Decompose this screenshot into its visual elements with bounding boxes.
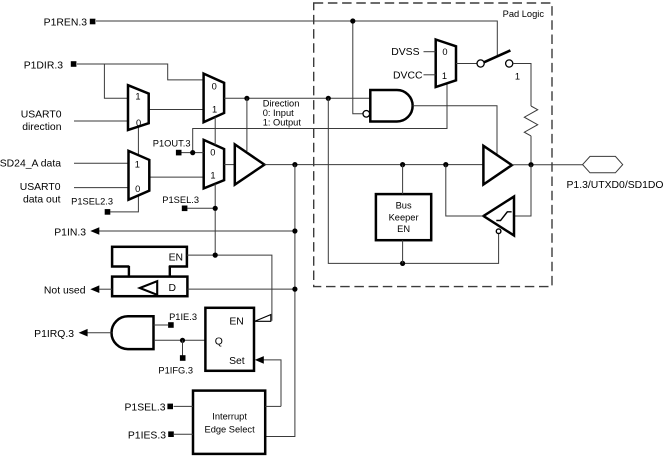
svg-text:1: 1 [135,92,140,102]
switch right contact [506,60,513,67]
wire direction branch down to bus keeper line [328,98,402,263]
wire edge select top output [265,405,281,407]
clock triangle in D box [140,281,157,295]
svg-text:Edge Select: Edge Select [205,424,256,434]
svg-text:P1OUT.3: P1OUT.3 [153,138,191,148]
svg-text:P1.3/UTXD0/SD1DO: P1.3/UTXD0/SD1DO [567,180,663,191]
wire P1OUT branch up to pull mux select [193,83,447,152]
svg-text:EN: EN [397,224,410,234]
svg-text:Interrupt: Interrupt [212,412,247,422]
wire bus keeper bottom [402,240,404,263]
svg-text:0: 0 [442,47,447,57]
arrow Set [255,356,264,364]
wire mux1 output to mux2 input 1 [149,109,204,111]
svg-text:USART0: USART0 [21,110,62,121]
node schmitt output junction [443,162,448,167]
wire P1IE.3 stub [154,324,169,326]
svg-text:1: 1 [442,71,447,81]
driver U12 (pad output buffer) [483,146,512,185]
wire P1DIR branch to mux1 input 1 [104,64,128,98]
node pad junction [528,162,533,167]
AND gate U6 (interrupt, mirrored) [111,316,153,349]
svg-text:SD24_A data: SD24_A data [0,158,61,169]
node direction branch down [326,96,331,101]
svg-text:1: 1 [210,171,215,181]
svg-text:DVCC: DVCC [393,70,423,81]
svg-text:0: 0 [136,118,141,128]
node P1SEL.3 junction [213,206,218,211]
svg-text:P1SEL.3: P1SEL.3 [162,195,199,205]
node bus keeper top junction [400,162,405,167]
wire EN line from latch [187,255,272,321]
svg-text:0: 0 [210,147,215,157]
pad hexagon P1.3 [583,156,623,172]
svg-text:P1SEL.3: P1SEL.3 [124,403,165,414]
wire pad down to schmitt input [514,165,531,216]
svg-text:Not used: Not used [44,286,86,297]
mux U3 (direction source mux) [204,74,225,123]
wire driver output to pad [512,164,583,166]
svg-text:Bus: Bus [396,200,412,210]
bus keeper box U11 [376,194,431,240]
arrow P1IN [90,227,99,235]
pad logic dashed border [314,3,552,287]
hysteresis symbol [496,212,511,221]
svg-text:1: Output: 1: Output [263,117,302,127]
latch input register box EN [112,247,187,267]
svg-text:0: Input: 0: Input [263,108,294,118]
svg-text:USART0: USART0 [20,182,61,193]
node bus keeper bottom junction [400,261,405,266]
svg-text:DVSS: DVSS [391,47,419,58]
wire P1SEL.3 upper [187,207,215,209]
wire Direction line mux3 out to NAND [224,97,370,99]
wire buffer enable vertical [246,98,248,151]
node direction branch to buffer enable [244,96,249,101]
node P1IN junction [292,228,297,233]
wire mux4 output to buffer [224,164,235,166]
svg-text:Set: Set [229,356,245,367]
bubble on NAND lower input [363,111,370,118]
wire main vertical to edge select [265,165,295,437]
mux U10 DVSS/DVCC [436,40,456,88]
resistor R1 [524,106,537,136]
wire P1SEL.3 lower [174,405,193,407]
node EN line junction [213,253,218,258]
svg-text:P1IRQ.3: P1IRQ.3 [34,329,74,340]
node P1OUT junction [190,150,195,155]
flag register box U7 [205,308,254,371]
wire P1IN.3 [96,230,295,232]
wire P1OUT.3 to mux3 input 0 [181,152,204,154]
wire select P1SEL2.3 from muxB bottom [110,195,138,212]
wire buffer output main line [264,164,483,166]
wire SD24_A data to muxB input 1 [74,162,129,164]
svg-text:direction: direction [22,122,61,133]
svg-text:1: 1 [135,159,140,169]
buffer U5 (internal tri-state) [235,144,265,184]
svg-text:EN: EN [169,252,183,263]
wire Set input with arrow [262,360,281,407]
svg-text:0: 0 [212,81,217,91]
wire select P1SEL2.3 between mux1 and muxB [137,127,139,156]
svg-text:P1IFG.3: P1IFG.3 [158,366,193,376]
wire P1IRQ output [85,332,111,334]
EN clock triangle on flag box [255,315,271,322]
svg-text:0: 0 [135,184,140,194]
label P1IFG.3 [180,355,186,361]
interrupt edge select box U8 [193,391,265,454]
wire schmitt output to main line [446,165,484,216]
svg-text:P1REN.3: P1REN.3 [44,18,88,29]
wire mux2/mux3 select chain [214,117,216,145]
wire muxB output to mux3 input 1 [149,176,203,178]
switch lever [484,50,510,62]
node main line branch down [292,162,297,167]
wire NAND output to driver enable [413,106,497,154]
node junction P1REN branch [350,18,355,23]
wire Q line [155,339,206,341]
arrow P1IRQ [79,329,88,337]
latch D box [112,277,187,297]
latch tab legs [128,266,130,278]
svg-text:data out: data out [23,195,61,206]
schmitt enable bubble [496,229,501,234]
wire bus keeper top [402,165,404,195]
arrow Not used [90,285,99,293]
wire P1REN branch down to NAND bubble [353,21,363,114]
wire not used stub [99,288,112,290]
svg-text:1: 1 [212,104,217,114]
wire P1IFG stub down [182,340,184,356]
svg-text:P1IE.3: P1IE.3 [169,312,197,322]
wire P1IES.3 [174,433,193,435]
wire bus keeper line to schmitt enable bubble [403,234,499,264]
svg-text:P1IN.3: P1IN.3 [54,228,86,239]
svg-text:Pad Logic: Pad Logic [503,9,545,19]
wire resistor to pad line [530,136,532,165]
wire P1REN.3 horizontal [96,21,497,56]
svg-text:EN: EN [229,316,243,327]
svg-text:P1IES.3: P1IES.3 [128,431,166,442]
wire D line from latch [187,288,295,290]
mux U2 (SD24/USART0 data select) [129,151,150,200]
wire USART0 data out to muxB input 0 [74,187,129,189]
schmitt trigger U13 (input buffer) [484,197,515,236]
wire USART0 direction to mux1 input 0 [74,120,128,122]
switch left contact [477,60,484,67]
mux U1 (direction select P1DIR/USART0) [128,85,149,130]
mux U4 (output data mux) [204,140,224,189]
svg-text:P1DIR.3: P1DIR.3 [24,61,63,72]
wire pull mux output to switch [456,63,477,65]
node D line junction [292,287,297,292]
svg-text:Keeper: Keeper [389,212,419,222]
svg-text:D: D [168,283,176,294]
svg-text:Q: Q [215,336,223,347]
NAND gate U9 in pad logic [370,90,412,122]
node P1IFG junction [180,338,185,343]
svg-text:P1SEL2.3: P1SEL2.3 [71,197,113,207]
svg-text:1: 1 [515,71,520,81]
wire switch to resistor [513,64,531,107]
wire P1DIR.3 with step to mux2 input 0 [77,64,204,80]
